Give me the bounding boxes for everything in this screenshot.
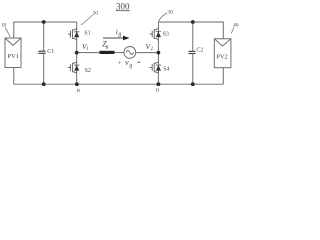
svg-text:n: n bbox=[77, 87, 80, 94]
capacitor C2 bbox=[189, 51, 196, 53]
PV panel PV2 bbox=[214, 39, 231, 68]
wire C1 branch upper bbox=[43, 22, 45, 51]
svg-text:20: 20 bbox=[93, 11, 99, 17]
wire C2 branch upper bbox=[192, 22, 194, 51]
svg-text:30: 30 bbox=[167, 9, 173, 15]
svg-text:S4: S4 bbox=[163, 67, 169, 73]
node V2 junction dot bbox=[157, 51, 161, 55]
wire S1 drain bbox=[76, 22, 78, 27]
svg-text:C1: C1 bbox=[47, 49, 54, 55]
junction dot C1 bottom bbox=[42, 82, 46, 86]
wire C2 branch lower bbox=[192, 54, 194, 84]
svg-text:PV2: PV2 bbox=[216, 53, 228, 60]
junction dot C2 top bbox=[191, 20, 195, 24]
svg-text:g: g bbox=[106, 44, 109, 50]
svg-text:C2: C2 bbox=[196, 47, 203, 53]
junction dot C2 bottom bbox=[191, 82, 195, 86]
wire S3 source to node V2 bbox=[157, 41, 159, 53]
wire PV2 bottom lead bbox=[222, 68, 224, 85]
AC source vg bbox=[124, 47, 136, 59]
svg-text:n: n bbox=[156, 87, 159, 94]
junction dot S2 bottom bbox=[75, 82, 79, 86]
grid current arrow ig bbox=[103, 36, 130, 40]
svg-text:S3: S3 bbox=[163, 32, 169, 38]
wire grid branch middle bbox=[115, 52, 125, 54]
leader line 20 bbox=[81, 15, 93, 25]
junction dot C1 top bbox=[42, 20, 46, 24]
switch S3 bbox=[150, 27, 161, 41]
wire node V2 to S4 drain bbox=[157, 53, 159, 61]
wire grid branch right bbox=[136, 52, 159, 54]
PV panel PV1 bbox=[5, 38, 21, 68]
capacitor C1 bbox=[38, 51, 45, 53]
grid impedance Zg bbox=[100, 51, 115, 54]
wire S4 source to bottom rail bbox=[157, 75, 159, 85]
wire node V1 to S2 drain bbox=[76, 53, 78, 61]
junction dot S4 bottom bbox=[157, 82, 161, 86]
leader line 10 bbox=[5, 27, 10, 37]
switch S4 bbox=[150, 61, 161, 75]
svg-text:PV1: PV1 bbox=[7, 53, 19, 60]
wire PV1 bottom lead bbox=[13, 68, 15, 85]
svg-text:S1: S1 bbox=[84, 31, 90, 37]
svg-text:+: + bbox=[118, 60, 122, 67]
wire top-left rail bbox=[14, 22, 77, 38]
wire C1 branch lower bbox=[43, 54, 45, 85]
wire top-right rail bbox=[158, 22, 223, 39]
svg-text:S2: S2 bbox=[85, 68, 91, 74]
wire S2 source to bottom rail bbox=[76, 75, 78, 85]
svg-text:g: g bbox=[118, 32, 121, 38]
leader line 30 bbox=[159, 13, 167, 22]
switch S1 bbox=[68, 27, 79, 41]
node V1 junction dot bbox=[75, 51, 79, 55]
svg-text:v: v bbox=[125, 58, 129, 67]
svg-text:300: 300 bbox=[116, 2, 130, 12]
leader line 40 bbox=[231, 27, 234, 34]
wire S3 drain bbox=[157, 22, 159, 27]
wire grid branch left bbox=[77, 52, 100, 54]
wire S1 source to node V1 bbox=[76, 41, 78, 52]
switch S2 bbox=[68, 61, 79, 75]
svg-text:g: g bbox=[129, 63, 132, 69]
wire bottom rail bbox=[14, 83, 224, 85]
